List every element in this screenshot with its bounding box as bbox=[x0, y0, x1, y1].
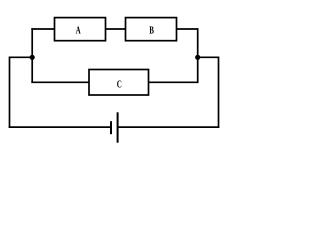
svg-text:B: B bbox=[149, 24, 154, 36]
wire A to B bbox=[106, 28, 126, 30]
wire right riser up to node right bbox=[197, 57, 199, 84]
wire top-left horizontal into A bbox=[31, 28, 54, 30]
resistor box B bbox=[126, 18, 177, 41]
wire node left to outer left bbox=[10, 56, 33, 58]
resistor box A bbox=[55, 18, 106, 41]
node left junction dot bbox=[30, 55, 35, 60]
wire bottom left to battery bbox=[9, 126, 111, 128]
wire outer right vertical bbox=[218, 57, 220, 128]
wire battery to bottom right bbox=[118, 126, 220, 128]
resistor box C bbox=[89, 70, 149, 96]
wire C to right riser bbox=[149, 81, 198, 83]
wire middle branch into C bbox=[31, 81, 89, 83]
wire left riser from top branch to node left bbox=[31, 28, 33, 57]
battery negative plate (short) bbox=[110, 121, 112, 134]
wire node right to outer right bbox=[198, 56, 219, 58]
svg-text:A: A bbox=[76, 24, 81, 36]
node right junction dot bbox=[195, 55, 200, 60]
battery positive plate (long) bbox=[117, 112, 119, 142]
svg-text:C: C bbox=[117, 78, 122, 90]
wire B to right riser bbox=[177, 28, 199, 30]
wire outer left vertical bbox=[9, 57, 11, 128]
wire node left down to middle branch bbox=[31, 57, 33, 82]
wire right riser down to node right bbox=[197, 28, 199, 57]
